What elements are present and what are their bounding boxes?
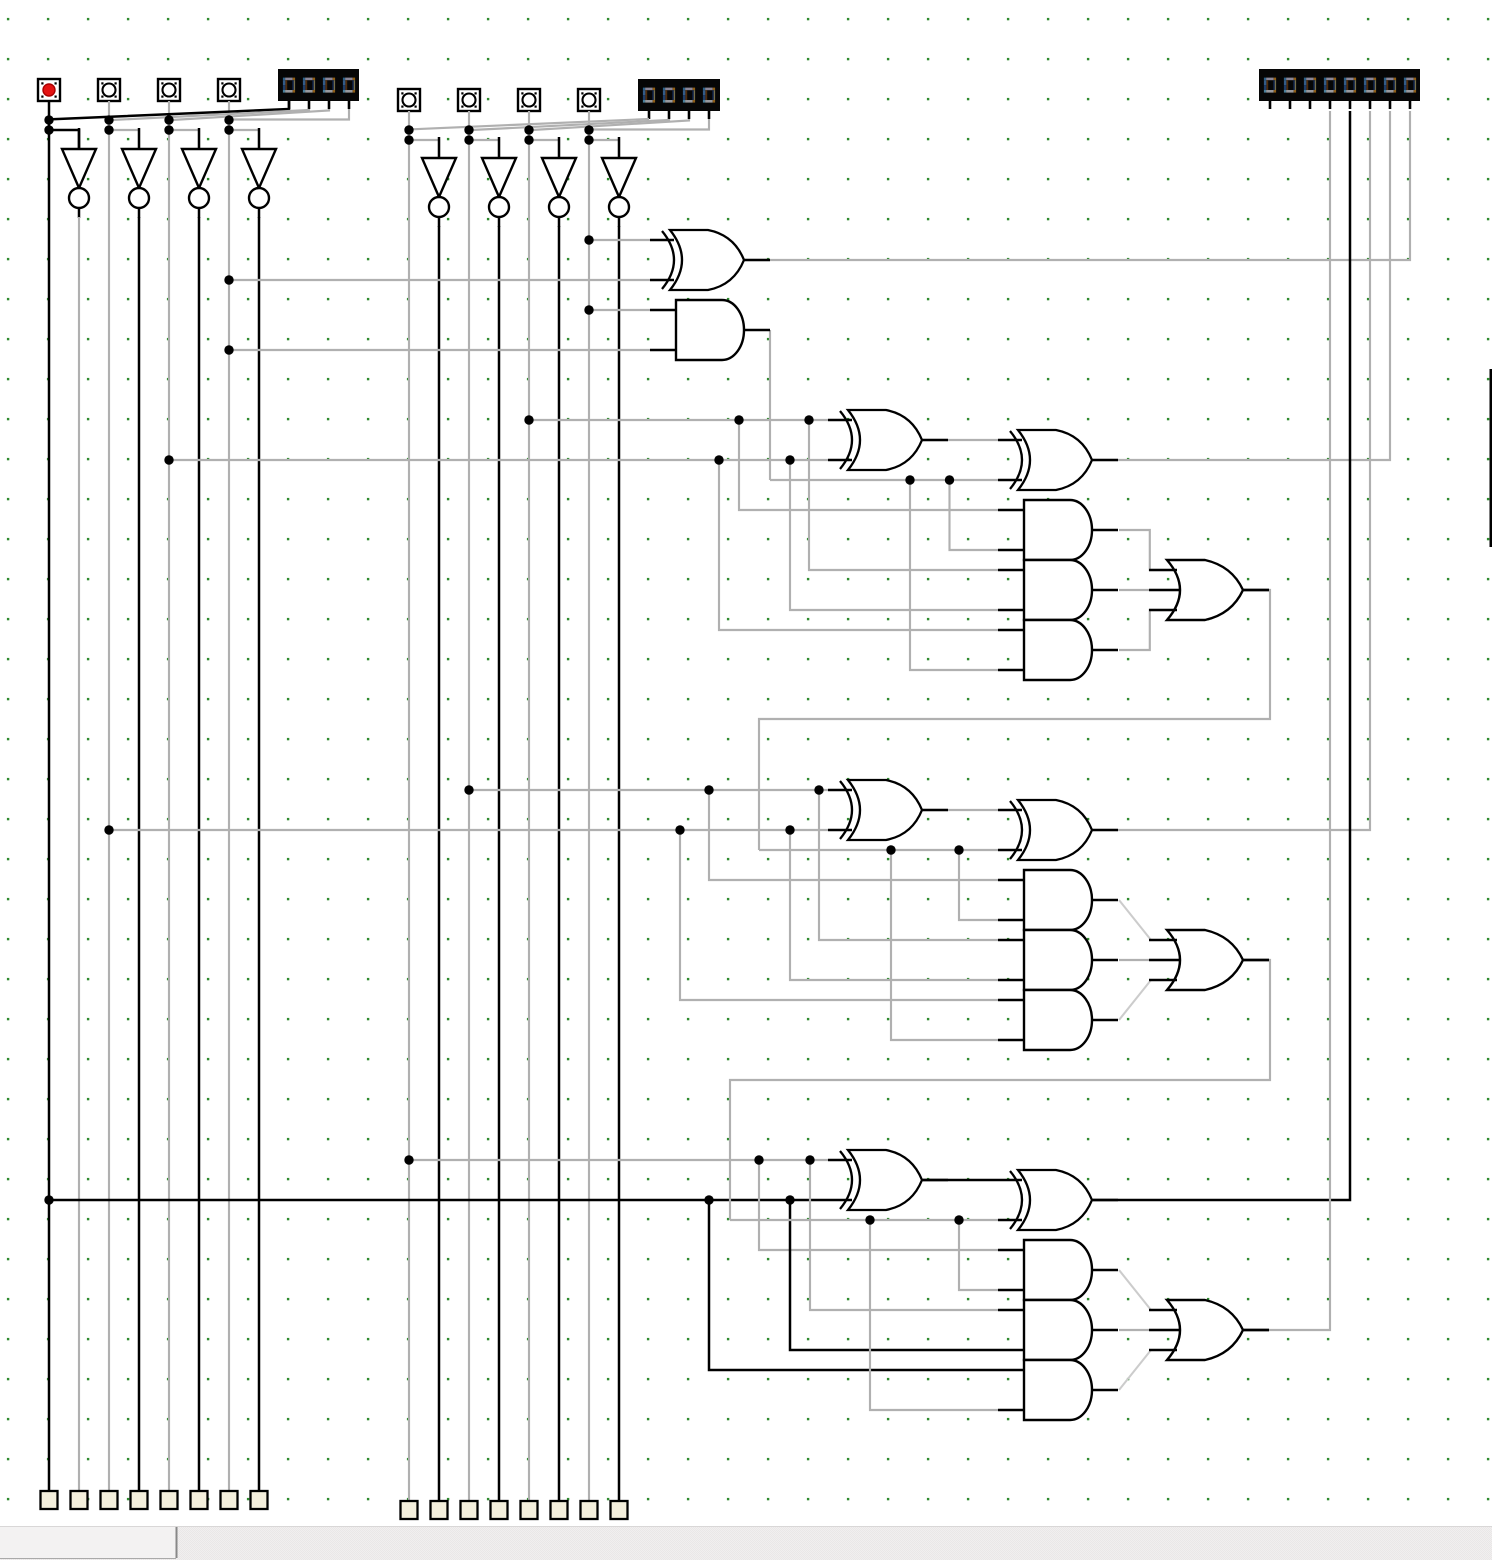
wire FA2 AND2 to OR bbox=[1119, 959, 1180, 961]
junction FA1 B/AND2 tap bbox=[785, 455, 794, 464]
junction FA1 A/AND1 tap bbox=[734, 415, 743, 424]
wire A0 inverter jog bbox=[229, 130, 259, 149]
wire display-B pin3 bbox=[532, 119, 689, 130]
junction A3 display node bbox=[44, 115, 53, 124]
wire A2 inverter jog bbox=[109, 130, 139, 149]
junction FA3 carry/AND1 tap bbox=[954, 1215, 963, 1224]
wire NOT-A2 rail bbox=[138, 217, 141, 1491]
wire A tap to FA1 bbox=[529, 419, 828, 421]
junction B3 tap bbox=[404, 1155, 413, 1164]
wire FA3 AND2 to OR bbox=[1119, 1329, 1180, 1331]
wire FA1 AND1 to OR bbox=[1119, 530, 1170, 570]
wire FA3 B to AND3 bbox=[709, 1200, 998, 1370]
inverter NOT-A3 bbox=[78, 128, 81, 149]
junction FA3 carry/AND3 tap bbox=[865, 1215, 874, 1224]
output pin NOT-B3 bbox=[431, 1501, 448, 1519]
output pin NOT-A1 bbox=[191, 1491, 208, 1509]
wire FA1 A to AND1 bbox=[739, 420, 998, 510]
inverter NOT-A2 bbox=[138, 128, 141, 149]
junction B2 inverter node bbox=[464, 135, 473, 144]
input button B0 bbox=[578, 89, 600, 111]
hex display A bbox=[278, 69, 359, 101]
wire B0 tap to HA-AND bbox=[229, 349, 650, 351]
wire display-A pin3 bbox=[172, 109, 329, 120]
wire A tap to FA3 bbox=[409, 1159, 828, 1161]
input button B1 bbox=[518, 89, 540, 111]
junction FA3 B/AND3 tap bbox=[704, 1195, 713, 1204]
junction B2 display node bbox=[464, 125, 473, 134]
wire FA2 carry-in bbox=[759, 849, 998, 851]
wire FA2 A to AND2 bbox=[819, 790, 998, 940]
wire B2 button stub bbox=[468, 111, 470, 130]
output pin A0 bbox=[221, 1491, 238, 1509]
junction FA1 carry/AND1 tap bbox=[945, 475, 954, 484]
wire FA3 carry out to display bit4 bbox=[1243, 111, 1330, 1330]
wire B3 rail bbox=[408, 130, 410, 1501]
wire B3 inverter jog bbox=[409, 140, 439, 158]
wire FA2 B to AND2 bbox=[790, 830, 998, 980]
output pin A3 bbox=[41, 1491, 58, 1509]
input button B3 bbox=[398, 89, 420, 111]
wire display-B pin1 bbox=[412, 119, 649, 129]
and gate FA1-AND2 bbox=[1024, 560, 1092, 620]
output pin A1 bbox=[161, 1491, 178, 1509]
wire FA1 AND2 to OR bbox=[1119, 589, 1180, 591]
xor gate FA3-XOR1 bbox=[848, 1150, 922, 1210]
junction A0/HA-AND bbox=[584, 305, 593, 314]
wire FA3 carry to AND3 bbox=[870, 1220, 998, 1410]
junction A1 display node bbox=[164, 115, 173, 124]
input button B2 bbox=[458, 89, 480, 111]
output pin B2 bbox=[461, 1501, 478, 1519]
junction B1 inverter node bbox=[524, 135, 533, 144]
wire FA3 AND1 to OR bbox=[1119, 1270, 1151, 1310]
and gate FA3-AND1 bbox=[1024, 1240, 1092, 1300]
or gate FA1-OR output stub bbox=[1243, 589, 1269, 592]
junction FA1 carry/AND3 tap bbox=[905, 475, 914, 484]
wire FA1 B to AND3 bbox=[719, 460, 998, 630]
junction FA2 carry/AND3 tap bbox=[886, 845, 895, 854]
wire FA1 carry to AND1 bbox=[950, 480, 999, 550]
wire HA sum to display bit0 bbox=[744, 111, 1410, 260]
wire A1 button stub bbox=[168, 101, 170, 120]
or gate FA3-OR output stub bbox=[1243, 1329, 1269, 1332]
or gate FA3-OR bbox=[1167, 1300, 1243, 1360]
wire A tap to FA2 bbox=[469, 789, 828, 791]
junction A3 inverter node bbox=[44, 125, 53, 134]
wire FA1 carry-in bbox=[770, 479, 998, 481]
wire FA1 B to AND2 bbox=[790, 460, 998, 610]
junction B0 display node bbox=[584, 125, 593, 134]
wire A2 rail bbox=[108, 120, 110, 1491]
junction FA3 A/AND1 tap bbox=[754, 1155, 763, 1164]
wire B0 rail bbox=[588, 130, 590, 1501]
output pin B3 bbox=[401, 1501, 418, 1519]
wire A1 rail bbox=[168, 120, 170, 1491]
wire B3 button stub bbox=[408, 111, 410, 130]
inverter NOT-B1 bbox=[558, 137, 561, 158]
wire FA3 A to AND1 bbox=[759, 1160, 998, 1250]
or gate FA2-OR output stub bbox=[1243, 959, 1269, 962]
wire NOT-B0 rail bbox=[618, 226, 621, 1501]
inverter NOT-A0 bbox=[258, 128, 261, 149]
output pin NOT-A2 bbox=[131, 1491, 148, 1509]
junction FA2 carry/AND1 tap bbox=[954, 845, 963, 854]
wire FA3 carry-in bbox=[730, 1219, 998, 1221]
wire B1 button stub bbox=[528, 111, 530, 130]
junction A3 tap bbox=[44, 1195, 53, 1204]
wire FA2 XOR1 to XOR2 bbox=[923, 809, 998, 811]
junction B1 display node bbox=[524, 125, 533, 134]
output pin NOT-B2 bbox=[491, 1501, 508, 1519]
wire FA1 carry chain bbox=[759, 590, 1270, 850]
junction FA3 B/AND2 tap bbox=[785, 1195, 794, 1204]
output pin NOT-A3 bbox=[71, 1491, 88, 1509]
junction B3 display node bbox=[404, 125, 413, 134]
input button A2 bbox=[98, 79, 120, 101]
junction FA1 A/AND2 tap bbox=[804, 415, 813, 424]
wire FA2 carry to AND3 bbox=[891, 850, 998, 1040]
junction B0 inverter node bbox=[584, 135, 593, 144]
wire FA2 B to AND3 bbox=[680, 830, 998, 1000]
and gate FA1-AND3 bbox=[1024, 620, 1092, 680]
wire A3 inverter jog bbox=[49, 130, 79, 149]
wire FA1 carry to AND3 bbox=[910, 480, 998, 670]
or gate FA2-OR bbox=[1167, 930, 1243, 990]
wire HA carry bbox=[769, 330, 771, 480]
wire FA2 AND1 to OR bbox=[1119, 900, 1151, 940]
wire A0 tap to HA-AND bbox=[589, 309, 650, 311]
wire A0 rail bbox=[228, 120, 230, 1491]
wire A3 rail bbox=[48, 120, 51, 1491]
wire NOT-A3 rail bbox=[78, 217, 80, 1491]
xor gate FA2-XOR2 bbox=[1018, 800, 1092, 860]
wire FA1 XOR1 to XOR2 bbox=[923, 439, 998, 441]
inverter NOT-B3 bbox=[438, 137, 441, 158]
junction FA2 A/AND1 tap bbox=[704, 785, 713, 794]
xor gate FA3-XOR2 bbox=[1018, 1170, 1092, 1230]
junction A2 tap bbox=[104, 825, 113, 834]
wire display-A pin4 bbox=[232, 109, 349, 120]
output pin NOT-B1 bbox=[551, 1501, 568, 1519]
xor gate FA1-XOR2 bbox=[1018, 430, 1092, 490]
wire A0 tap to HA-XOR bbox=[589, 239, 650, 241]
wire NOT-B3 rail bbox=[438, 226, 441, 1501]
input button A3 bbox=[38, 79, 60, 101]
xor gate FA2-XOR1 bbox=[848, 780, 922, 840]
and gate HA-AND bbox=[676, 300, 744, 360]
junction FA2 B/AND2 tap bbox=[785, 825, 794, 834]
wire FA1 A to AND2 bbox=[809, 420, 998, 570]
wire B1 inverter jog bbox=[529, 140, 559, 158]
wire A2 button stub bbox=[108, 101, 110, 120]
junction FA2 B/AND3 tap bbox=[675, 825, 684, 834]
junction B3 inverter node bbox=[404, 135, 413, 144]
wire FA1 sum out bbox=[1093, 111, 1390, 460]
wire B0 tap to HA-XOR bbox=[229, 279, 650, 281]
wire FA2 AND3 to OR bbox=[1119, 980, 1151, 1020]
junction A2 inverter node bbox=[104, 125, 113, 134]
output pin B0 bbox=[581, 1501, 598, 1519]
input button A0 bbox=[218, 79, 240, 101]
and gate FA2-AND3 bbox=[1024, 990, 1092, 1050]
wire B tap to FA3 bbox=[49, 1199, 828, 1202]
wire B tap to FA2 bbox=[109, 829, 828, 831]
hex display SUM bbox=[1259, 69, 1420, 101]
wire FA1 AND3 to OR bbox=[1119, 610, 1170, 650]
wire display-B pin4 bbox=[592, 119, 709, 130]
wire NOT-B1 rail bbox=[558, 226, 561, 1501]
junction B0/HA-AND bbox=[224, 345, 233, 354]
junction A0 display node bbox=[224, 115, 233, 124]
and gate FA2-AND2 bbox=[1024, 930, 1092, 990]
junction FA2 A/AND2 tap bbox=[814, 785, 823, 794]
wire display-B pin2 bbox=[472, 119, 669, 130]
and gate FA2-AND1 bbox=[1024, 870, 1092, 930]
wire display-A pin2 bbox=[112, 109, 309, 120]
wire A3 button stub bbox=[48, 101, 51, 120]
bottom scrollbar track bbox=[0, 1526, 1492, 1560]
wire B1 rail bbox=[528, 130, 530, 1501]
inverter NOT-A1 bbox=[198, 128, 201, 149]
wire B0 button stub bbox=[588, 111, 590, 130]
junction A0 inverter node bbox=[224, 125, 233, 134]
wire NOT-A1 rail bbox=[198, 217, 201, 1491]
xor gate HA-XOR bbox=[670, 230, 744, 290]
wire FA3 AND3 to OR bbox=[1119, 1350, 1151, 1390]
wire B0 inverter jog bbox=[589, 140, 619, 158]
hex display B bbox=[638, 79, 720, 111]
junction B1 tap bbox=[524, 415, 533, 424]
wire NOT-B2 rail bbox=[498, 226, 501, 1501]
bottom scrollbar thumb bbox=[0, 1527, 176, 1558]
junction B0/HA-XOR bbox=[224, 275, 233, 284]
wire FA2 carry to AND1 bbox=[959, 850, 998, 920]
junction FA3 A/AND2 tap bbox=[805, 1155, 814, 1164]
junction FA1 B/AND3 tap bbox=[714, 455, 723, 464]
junction A1 inverter node bbox=[164, 125, 173, 134]
junction B2 tap bbox=[464, 785, 473, 794]
junction A2 display node bbox=[104, 115, 113, 124]
output pin NOT-A0 bbox=[251, 1491, 268, 1509]
junction A1 tap bbox=[164, 455, 173, 464]
wire B2 inverter jog bbox=[469, 140, 499, 158]
xor gate FA1-XOR1 bbox=[848, 410, 922, 470]
and gate FA3-AND3 bbox=[1024, 1360, 1092, 1420]
junction A0/HA-XOR bbox=[584, 235, 593, 244]
wire FA2 carry chain bbox=[730, 960, 1270, 1220]
wire FA3 XOR1 to XOR2 bbox=[923, 1179, 998, 1182]
wire B tap to FA1 bbox=[169, 459, 828, 461]
and gate FA1-AND1 bbox=[1024, 500, 1092, 560]
output pin B1 bbox=[521, 1501, 538, 1519]
wire FA2 sum out bbox=[1093, 111, 1370, 830]
or gate FA1-OR bbox=[1167, 560, 1243, 620]
wire FA2 A to AND1 bbox=[709, 790, 998, 880]
wire FA3 A to AND2 bbox=[810, 1160, 998, 1310]
and gate FA3-AND2 bbox=[1024, 1300, 1092, 1360]
output pin NOT-B0 bbox=[611, 1501, 628, 1519]
output pin A2 bbox=[101, 1491, 118, 1509]
wire B2 rail bbox=[468, 130, 470, 1501]
wire display-A pin1 bbox=[52, 101, 289, 119]
wire NOT-A0 rail bbox=[258, 217, 261, 1491]
wire A0 button stub bbox=[228, 101, 230, 120]
inverter NOT-B0 bbox=[618, 137, 621, 158]
input button A1 bbox=[158, 79, 180, 101]
wire FA3 B to AND2 bbox=[790, 1200, 998, 1350]
wire A1 inverter jog bbox=[169, 130, 199, 149]
inverter NOT-B2 bbox=[498, 137, 501, 158]
wire FA3 carry to AND1 bbox=[959, 1220, 998, 1290]
window right scrollbar mark bbox=[1490, 369, 1492, 547]
wire FA3 sum out bbox=[1093, 111, 1350, 1200]
